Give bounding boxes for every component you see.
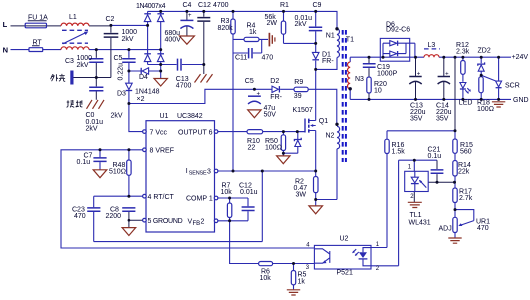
svg-text:100Ω: 100Ω (477, 106, 494, 113)
svg-text:3W: 3W (296, 191, 307, 198)
svg-text:×2: ×2 (137, 96, 145, 103)
svg-text:1N4148: 1N4148 (135, 88, 160, 95)
svg-text:2.3k: 2.3k (456, 49, 470, 56)
svg-text:2W: 2W (267, 20, 278, 27)
svg-text:I: I (186, 168, 188, 175)
svg-text:COMP 1: COMP 1 (186, 195, 213, 202)
svg-text:N3: N3 (355, 76, 364, 83)
svg-text:100Ω: 100Ω (265, 144, 282, 151)
svg-text:22: 22 (248, 144, 256, 151)
svg-text:UC3842: UC3842 (177, 113, 203, 120)
svg-text:LED: LED (459, 100, 473, 107)
svg-text:1.5k: 1.5k (392, 148, 406, 155)
svg-text:0.01u: 0.01u (240, 189, 258, 196)
svg-text:RT: RT (33, 40, 43, 47)
svg-text:C5: C5 (245, 78, 254, 85)
svg-text:4700: 4700 (213, 2, 229, 9)
svg-text:1000: 1000 (77, 55, 93, 62)
svg-text:1k: 1k (298, 278, 306, 285)
svg-text:8 VREF: 8 VREF (150, 148, 175, 155)
svg-text:39: 39 (294, 93, 302, 100)
svg-text:470: 470 (262, 54, 274, 61)
svg-text:+: + (257, 91, 261, 97)
svg-text:1000P: 1000P (377, 70, 398, 77)
svg-text:2200: 2200 (106, 213, 122, 220)
svg-text:10k: 10k (260, 275, 272, 282)
svg-text:2.7k: 2.7k (459, 195, 473, 202)
svg-text:SCR: SCR (505, 82, 520, 89)
svg-text:7 Vcc: 7 Vcc (150, 129, 168, 136)
svg-text:0.1u: 0.1u (77, 159, 91, 166)
svg-text:1k: 1k (249, 29, 257, 36)
svg-text:C5: C5 (114, 55, 123, 62)
svg-text:OUTPUT 6: OUTPUT 6 (178, 129, 213, 136)
svg-text:22k: 22k (458, 168, 470, 175)
svg-text:C2: C2 (106, 16, 115, 23)
svg-text:4700: 4700 (176, 82, 192, 89)
svg-text:TL1: TL1 (410, 212, 422, 219)
svg-text:C11: C11 (235, 54, 247, 61)
svg-text:35V: 35V (436, 115, 449, 122)
svg-text:+: + (417, 71, 421, 77)
svg-text:D92-C6: D92-C6 (386, 27, 410, 34)
svg-text:2kV: 2kV (295, 21, 307, 28)
svg-text:U2: U2 (340, 235, 349, 242)
svg-text:FU 1A: FU 1A (28, 15, 48, 22)
svg-text:1N4007x4: 1N4007x4 (136, 3, 166, 10)
svg-text:Q1: Q1 (319, 118, 328, 125)
svg-text:L3: L3 (428, 42, 436, 49)
svg-text:2: 2 (201, 218, 205, 225)
svg-text:+24V: +24V (512, 54, 529, 61)
svg-text:N: N (3, 46, 8, 55)
svg-text:2kV: 2kV (111, 112, 123, 119)
svg-text:0.1u: 0.1u (428, 153, 442, 160)
svg-text:ADJ: ADJ (439, 226, 452, 233)
svg-text:P521: P521 (337, 270, 353, 277)
svg-text:D3: D3 (117, 90, 126, 97)
svg-text:SENSE: SENSE (189, 171, 207, 177)
svg-text:470: 470 (477, 225, 489, 232)
svg-text:2kV: 2kV (86, 125, 98, 132)
svg-text:1000: 1000 (122, 29, 138, 36)
svg-text:ZD2: ZD2 (478, 47, 491, 54)
svg-text:35V: 35V (410, 115, 423, 122)
svg-text:K1507: K1507 (293, 107, 313, 114)
svg-text:L1: L1 (69, 14, 77, 21)
svg-text:C3: C3 (65, 58, 74, 65)
svg-text:510Ω: 510Ω (109, 168, 126, 175)
svg-text:R1: R1 (280, 2, 289, 9)
svg-text:FR-: FR- (270, 94, 282, 101)
svg-text:560: 560 (460, 148, 472, 155)
svg-text:GND: GND (513, 97, 529, 104)
svg-text:0.22u: 0.22u (118, 63, 125, 81)
svg-text:820k: 820k (218, 25, 234, 32)
svg-text:FB: FB (193, 221, 201, 227)
svg-text:R3: R3 (221, 18, 230, 25)
svg-text:N2: N2 (326, 133, 335, 140)
svg-text:+: + (445, 71, 449, 77)
svg-text:C9: C9 (313, 2, 322, 9)
svg-text:400V: 400V (165, 36, 182, 43)
svg-text:5 GROUND: 5 GROUND (148, 218, 183, 225)
svg-text:2kV: 2kV (122, 36, 134, 43)
svg-text:C12: C12 (198, 2, 211, 9)
svg-text:2kV: 2kV (77, 62, 89, 69)
svg-text:D2: D2 (270, 78, 279, 85)
svg-text:FR-: FR- (322, 58, 334, 65)
svg-text:N1: N1 (326, 32, 335, 39)
svg-text:R9: R9 (294, 79, 303, 86)
svg-text:C4: C4 (183, 2, 192, 9)
svg-text:10k: 10k (221, 189, 233, 196)
svg-text:4 RT/CT: 4 RT/CT (148, 194, 175, 201)
svg-text:L: L (3, 20, 8, 29)
svg-text:470: 470 (74, 213, 86, 220)
svg-text:50V: 50V (264, 111, 277, 118)
svg-text:3: 3 (207, 168, 211, 175)
svg-text:D4: D4 (139, 74, 148, 81)
svg-text:U1: U1 (160, 113, 169, 120)
svg-text:10: 10 (374, 87, 382, 94)
svg-text:T1: T1 (346, 37, 354, 44)
svg-text:+: + (188, 13, 192, 19)
svg-text:WL431: WL431 (409, 220, 431, 227)
